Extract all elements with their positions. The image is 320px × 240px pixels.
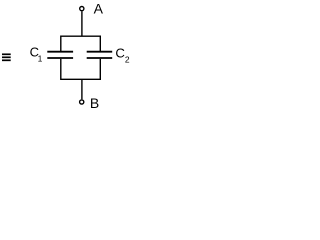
wire bottom rail to B [81,79,83,99]
svg-text:C2: C2 [115,45,130,64]
svg-text:C1: C1 [30,45,43,64]
wire top rail with branch stems [61,36,101,51]
equivalence symbol [2,54,11,60]
wire bottom rail with branch stems [61,59,101,79]
terminal A [80,7,84,11]
terminal B [80,100,84,104]
svg-text:A: A [94,1,104,17]
svg-text:B: B [90,95,99,111]
capacitor C2 [87,52,113,58]
capacitor C1 [47,52,73,58]
wire A to top rail [81,11,83,36]
